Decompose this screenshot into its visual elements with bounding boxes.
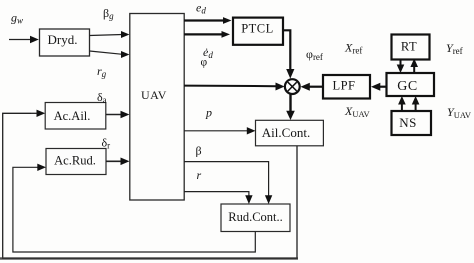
svg-text:UAV: UAV [141, 88, 167, 102]
wire Dryd to UAV (r_g) [90, 51, 130, 58]
svg-text:r: r [197, 168, 202, 182]
svg-text:p: p [205, 106, 212, 120]
svg-text:GC: GC [397, 79, 417, 94]
wire Dryd to UAV (beta_g) [90, 31, 130, 38]
svg-text:Ail.Cont.: Ail.Cont. [262, 125, 310, 140]
block Ac.Rud. [46, 149, 106, 175]
wire UAV to Rud.Cont. (r) [184, 192, 252, 204]
block NS [392, 111, 432, 135]
svg-text:Dryd.: Dryd. [48, 32, 78, 47]
wire Ail.Cont. feedback to Ac.Ail. (outer loop) [3, 110, 297, 259]
block UAV [130, 14, 184, 201]
block PTCL [233, 18, 283, 45]
wire gw input arrow [9, 36, 39, 43]
svg-text:β: β [196, 144, 202, 158]
wire UAV to Rud.Cont. (beta) [184, 162, 272, 204]
block LPF [323, 75, 370, 99]
svg-text:Ac.Ail.: Ac.Ail. [54, 109, 91, 123]
block GC [387, 73, 435, 96]
block Ail.Cont. [256, 120, 324, 146]
bottom dark scan band [0, 257, 298, 259]
svg-text:LPF: LPF [332, 79, 355, 93]
block Dryd. [40, 29, 90, 56]
wire LPF to summing junction [301, 83, 324, 91]
wire UAV to PTCL (e_d dot) thick [184, 31, 230, 38]
wire GC to LPF [371, 83, 387, 91]
block Ac.Ail. [45, 103, 106, 130]
wire UAV to Ail.Cont. (p) [184, 127, 255, 134]
wire NS to GC (up arrow left) [398, 96, 406, 111]
block Rud.Cont.. [221, 204, 290, 232]
svg-text:Rud.Cont..: Rud.Cont.. [228, 210, 283, 224]
svg-text:RT: RT [401, 40, 417, 54]
svg-text:φ: φ [201, 57, 208, 69]
summing junction (multiplier circle with X) [285, 79, 300, 94]
wire UAV to summing junction (phi) thick [184, 83, 284, 91]
wire summing junction to Ail.Cont. [286, 95, 295, 121]
wire RT to GC (down arrow) [397, 59, 405, 74]
wire Rud.Cont. feedback to Ac.Rud. (inner loop) [13, 164, 255, 252]
wire Ac.Rud. to UAV (delta_r) [106, 158, 130, 166]
svg-text:Ac.Rud.: Ac.Rud. [54, 154, 96, 168]
wire GC to RT (up arrow) [410, 59, 418, 74]
svg-text:PTCL: PTCL [241, 22, 274, 36]
svg-text:NS: NS [399, 115, 417, 130]
wire Ac.Ail. to UAV (delta_a) [106, 111, 130, 119]
block RT [392, 35, 430, 60]
wire NS to GC (up arrow right) [412, 96, 420, 111]
wire UAV to PTCL (e_d) thick [184, 17, 231, 24]
wire PTCL to summing junction (phi_ref) [283, 30, 294, 78]
